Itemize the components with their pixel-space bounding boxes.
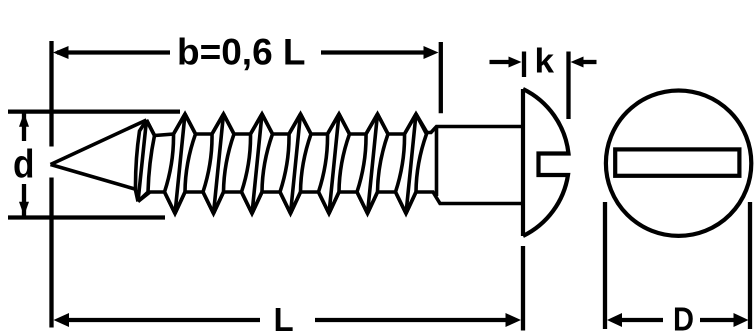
thread 7 lens	[357, 114, 388, 214]
svg-text:b=0,6 L: b=0,6 L	[177, 32, 306, 73]
k right arrow shaft	[582, 60, 597, 64]
arrowhead D left	[607, 313, 622, 327]
screw top profile zigzag	[147, 114, 524, 136]
screw tip cone lower line	[51, 165, 137, 190]
arrowhead d up	[19, 113, 29, 127]
d arrow shaft upper	[22, 113, 26, 141]
wire: left extension line upper part	[49, 41, 53, 147]
arrowhead L left	[54, 313, 70, 327]
L dimension line right segment	[315, 318, 508, 322]
k left extension line	[522, 52, 526, 78]
L dimension line left segment	[66, 318, 260, 322]
D dimension line right segment	[700, 318, 735, 322]
thread 6 lens	[319, 114, 350, 214]
slot rectangle front view	[615, 149, 739, 175]
arrowhead b left	[53, 46, 69, 59]
d bottom reference line	[8, 215, 165, 219]
svg-text:d: d	[13, 143, 35, 187]
svg-text:D: D	[673, 301, 694, 333]
thread 3 lens	[203, 114, 234, 214]
head dome upper arc	[523, 89, 569, 236]
arrowhead b right	[424, 46, 439, 59]
thread 5 lens	[280, 114, 311, 214]
D left extension line	[603, 202, 607, 329]
thread 2 lens	[165, 114, 196, 214]
wire: right extension line of b dimension	[439, 42, 443, 113]
svg-text:k: k	[535, 43, 555, 81]
thread 1 lens	[135, 120, 154, 202]
D dimension line left segment	[620, 318, 663, 322]
k right extension line	[566, 52, 570, 120]
d arrow shaft lower	[22, 184, 26, 216]
arrowhead k right (pointing left)	[571, 57, 584, 68]
dimension b=0,6 L line left segment	[57, 50, 170, 54]
shank left step vertical	[435, 127, 439, 197]
arrowhead k left (pointing right)	[509, 57, 522, 68]
arrowhead L right	[506, 313, 522, 327]
arrowhead D right	[734, 313, 749, 327]
thread 8 lens	[396, 114, 427, 214]
screw bottom profile zigzag	[138, 192, 523, 214]
screw tip cone upper line	[51, 120, 147, 165]
svg-text:L: L	[274, 301, 294, 333]
head front view circle	[606, 91, 751, 236]
d top reference line	[8, 109, 180, 113]
wire: L right extension line	[521, 246, 525, 331]
k left arrow shaft	[490, 60, 512, 64]
head flat face	[521, 89, 525, 236]
wire: left extension line lower part	[49, 178, 53, 328]
arrowhead d down	[19, 202, 29, 216]
thread 4 lens	[242, 114, 273, 214]
D right extension line	[748, 202, 752, 329]
dimension b=0,6 L line right segment	[321, 50, 425, 54]
